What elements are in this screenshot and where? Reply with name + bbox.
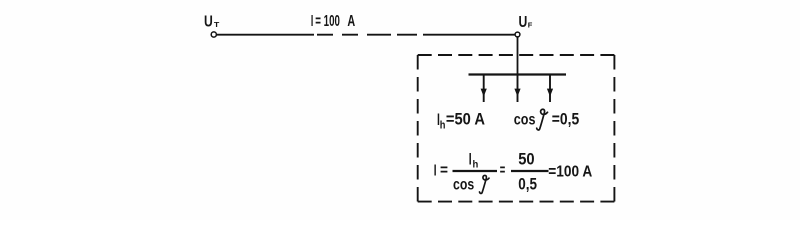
- svg-text:=100 A: =100 A: [548, 164, 592, 181]
- svg-text:h: h: [440, 119, 446, 131]
- svg-text:I: I: [469, 151, 472, 169]
- svg-text:I: I: [311, 13, 313, 30]
- phi glyph (script): [537, 109, 548, 130]
- node UT terminal: [211, 32, 216, 37]
- load feeder 1 wire: [483, 75, 485, 103]
- svg-text:T: T: [214, 20, 220, 29]
- formula: fraction bar 2: [511, 170, 549, 172]
- svg-text:F: F: [528, 21, 533, 30]
- consumer group boundary bottom edge: [418, 201, 615, 203]
- busbar: [469, 73, 567, 75]
- load feeder 3 wire: [549, 75, 551, 103]
- wire: top feeder line solid left part: [217, 34, 314, 36]
- label U_T: [204, 14, 220, 31]
- load feeder 2 wire: [517, 75, 519, 103]
- svg-text:U: U: [519, 14, 528, 31]
- node UF terminal: [515, 32, 520, 37]
- label I = 100 A on feeder: [311, 13, 356, 30]
- load arrow head 2: [514, 89, 520, 97]
- load arrow head 3: [547, 89, 553, 97]
- svg-text:cos: cos: [453, 177, 474, 194]
- svg-text:h: h: [473, 158, 479, 170]
- label Ih = 50 A (value of load current): [437, 110, 485, 131]
- consumer group boundary left edge: [417, 55, 419, 202]
- svg-text:=: =: [440, 162, 448, 179]
- svg-text:50: 50: [518, 150, 534, 169]
- label U_F: [519, 14, 533, 31]
- consumer group boundary right edge: [613, 55, 615, 202]
- svg-text:U: U: [204, 14, 213, 31]
- label cos phi = 0,5 (power factor): [514, 109, 579, 130]
- svg-text:A: A: [347, 13, 355, 30]
- consumer group boundary top edge (dashed box): [418, 54, 615, 56]
- formula I = Ih / cos phi = 50 / 0,5 = 100 A: [434, 150, 593, 194]
- wire: top feeder line dashed middle part: [317, 34, 417, 36]
- svg-text:=50 A: =50 A: [446, 110, 485, 128]
- svg-text:=: =: [500, 162, 506, 179]
- svg-text:I: I: [434, 163, 437, 180]
- svg-text:cos: cos: [514, 111, 536, 128]
- svg-text:0,5: 0,5: [518, 175, 537, 194]
- wire: top feeder line solid right part: [423, 34, 515, 36]
- formula: fraction bar 1: [453, 170, 498, 172]
- svg-text:= 100: = 100: [315, 13, 340, 30]
- wire: drop from UF node to busbar: [517, 37, 519, 74]
- formula: denominator phi glyph: [479, 175, 489, 193]
- load arrow head 1: [481, 89, 487, 97]
- svg-text:=0,5: =0,5: [552, 110, 579, 128]
